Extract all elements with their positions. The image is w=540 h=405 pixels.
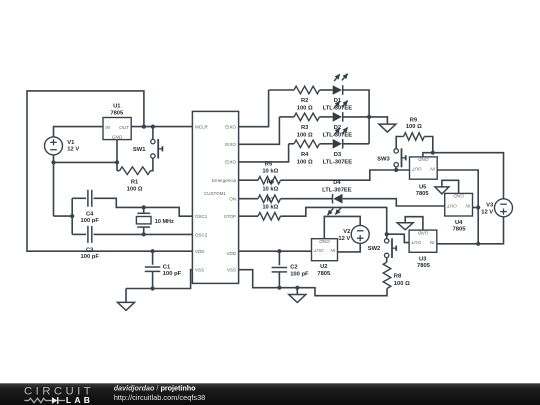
svg-text:GND: GND	[417, 230, 428, 235]
svg-text:7805: 7805	[416, 191, 430, 197]
svg-text:V3: V3	[486, 202, 494, 208]
svg-text:10 MHz: 10 MHz	[155, 219, 174, 225]
svg-text:LAB: LAB	[66, 395, 93, 405]
svg-text:VDD: VDD	[226, 251, 236, 256]
svg-text:100 Ω: 100 Ω	[394, 281, 410, 287]
svg-text:U2: U2	[320, 264, 327, 270]
svg-text:GND: GND	[319, 239, 330, 244]
svg-text:100 Ω: 100 Ω	[297, 132, 313, 138]
svg-text:MCLR: MCLR	[195, 125, 209, 130]
svg-text:OUT: OUT	[446, 204, 457, 209]
svg-text:OUT: OUT	[313, 248, 324, 253]
svg-text:LTL-307EE: LTL-307EE	[323, 132, 353, 138]
svg-text:C2: C2	[290, 265, 297, 271]
svg-text:IN: IN	[429, 240, 434, 245]
svg-text:R4: R4	[301, 152, 309, 158]
svg-text:U1: U1	[113, 103, 121, 109]
svg-text:GND: GND	[112, 134, 123, 139]
svg-text:davidjordao / projetinho: davidjordao / projetinho	[114, 383, 196, 392]
svg-text:10 kΩ: 10 kΩ	[262, 204, 278, 210]
svg-text:100 Ω: 100 Ω	[406, 124, 422, 130]
svg-text:http://circuitlab.com/ceqfs38: http://circuitlab.com/ceqfs38	[114, 393, 206, 402]
svg-text:EIXO: EIXO	[225, 142, 236, 147]
svg-text:7805: 7805	[453, 227, 467, 233]
svg-text:IN: IN	[465, 204, 470, 209]
svg-text:SW3: SW3	[377, 156, 390, 162]
svg-text:IN: IN	[430, 167, 435, 172]
svg-text:10 kΩ: 10 kΩ	[262, 186, 278, 192]
svg-text:V1: V1	[67, 140, 75, 146]
svg-text:100 pF: 100 pF	[163, 271, 182, 277]
svg-text:R8: R8	[394, 273, 402, 279]
svg-text:D2: D2	[334, 125, 341, 131]
svg-text:R2: R2	[301, 98, 308, 104]
svg-text:OUT: OUT	[411, 167, 422, 172]
svg-text:D1: D1	[334, 98, 342, 104]
svg-text:VSS: VSS	[227, 268, 236, 273]
svg-text:VDD: VDD	[195, 249, 205, 254]
svg-text:LTL-307EE: LTL-307EE	[323, 106, 353, 112]
svg-text:LTL-307EE: LTL-307EE	[322, 188, 352, 194]
svg-text:12 V: 12 V	[481, 209, 493, 215]
svg-text:C1: C1	[163, 265, 171, 271]
svg-text:7805: 7805	[417, 263, 431, 269]
svg-text:100 Ω: 100 Ω	[297, 106, 313, 112]
svg-text:STOP: STOP	[224, 214, 236, 219]
svg-text:100 pF: 100 pF	[290, 271, 309, 277]
svg-text:LTL-307EE: LTL-307EE	[323, 159, 353, 165]
svg-text:7805: 7805	[110, 111, 124, 117]
svg-text:12 V: 12 V	[67, 147, 79, 153]
svg-text:V2: V2	[343, 229, 350, 235]
svg-text:SW2: SW2	[368, 246, 381, 252]
svg-text:OUT: OUT	[119, 125, 130, 130]
svg-text:C3: C3	[86, 248, 94, 254]
svg-text:D3: D3	[334, 152, 342, 158]
svg-text:R9: R9	[410, 117, 418, 123]
svg-text:GND: GND	[418, 157, 429, 162]
svg-text:100 Ω: 100 Ω	[297, 159, 313, 165]
svg-text:10 kΩ: 10 kΩ	[262, 168, 278, 174]
svg-text:EIXO: EIXO	[225, 125, 236, 130]
svg-text:C4: C4	[86, 211, 94, 217]
svg-text:IN: IN	[105, 125, 110, 130]
svg-text:VSS: VSS	[195, 268, 204, 273]
svg-text:SW1: SW1	[133, 147, 146, 153]
svg-text:100 pF: 100 pF	[81, 254, 100, 260]
svg-text:U4: U4	[455, 220, 463, 226]
svg-text:U3: U3	[419, 256, 427, 262]
svg-text:CUSTOM1: CUSTOM1	[204, 191, 226, 196]
svg-text:R5: R5	[265, 161, 273, 167]
svg-text:R7: R7	[267, 198, 274, 204]
svg-text:100 Ω: 100 Ω	[127, 186, 143, 192]
svg-text:D4: D4	[333, 180, 341, 186]
svg-text:ON: ON	[229, 197, 236, 202]
svg-text:OSC2: OSC2	[195, 232, 208, 237]
svg-text:OUT: OUT	[410, 240, 421, 245]
svg-text:GND: GND	[453, 194, 464, 199]
svg-text:IN: IN	[330, 248, 335, 253]
svg-text:12 V: 12 V	[338, 236, 350, 242]
svg-text:EIXO: EIXO	[225, 160, 236, 165]
svg-text:U5: U5	[419, 185, 427, 191]
svg-text:R3: R3	[301, 125, 309, 131]
svg-text:R1: R1	[131, 179, 139, 185]
svg-text:7805: 7805	[317, 271, 331, 277]
svg-text:Emergencia: Emergencia	[212, 178, 237, 183]
svg-text:OSC1: OSC1	[195, 214, 208, 219]
svg-text:100 pF: 100 pF	[81, 218, 100, 224]
svg-text:R6: R6	[267, 180, 275, 186]
